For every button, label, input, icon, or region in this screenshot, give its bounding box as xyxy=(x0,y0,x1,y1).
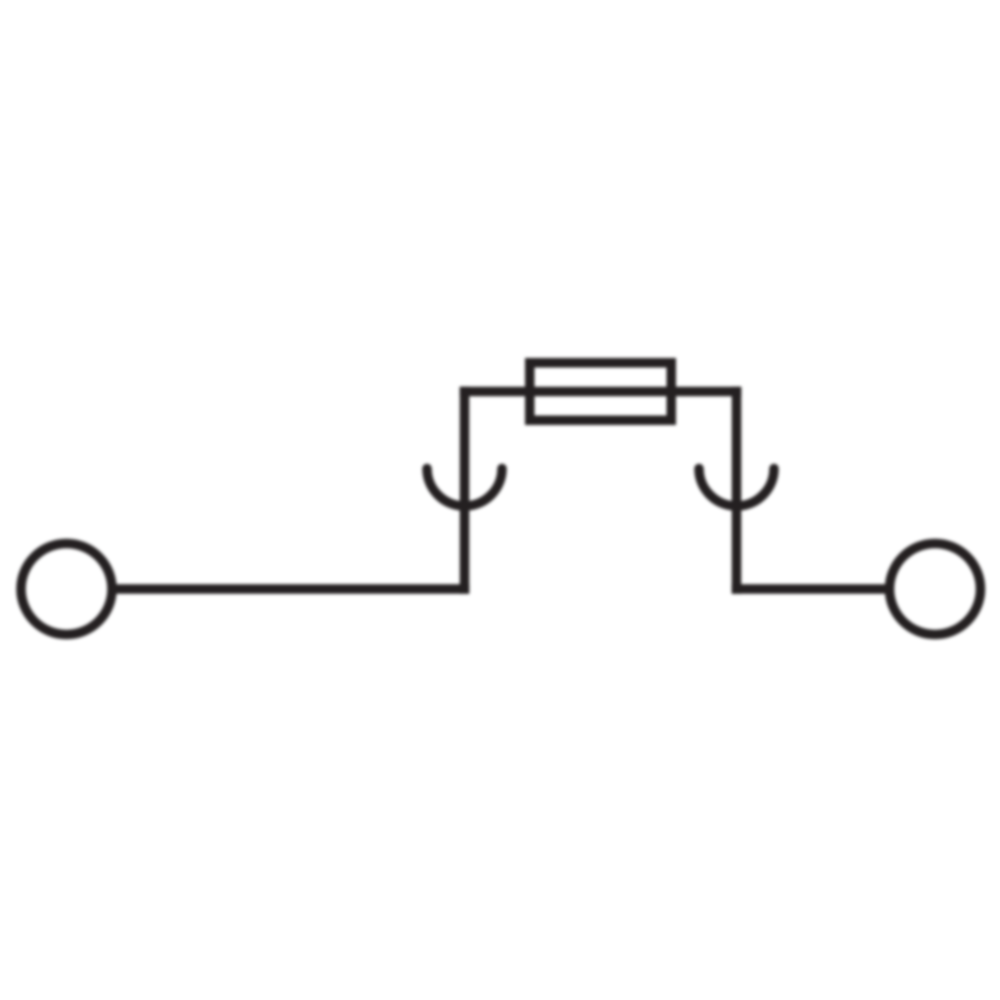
wire: top horizontal through fuse xyxy=(460,387,742,397)
terminal circle left xyxy=(21,544,112,635)
wire: bottom-right horizontal to right terminal xyxy=(732,584,886,594)
fuse body F1 (rectangle) xyxy=(530,363,672,421)
disconnect contact hook left xyxy=(427,469,502,507)
wire: bottom-left horizontal from left terminal xyxy=(112,584,469,594)
wire: left vertical riser xyxy=(460,387,470,594)
disconnect contact hook right xyxy=(699,469,774,507)
wire: right vertical riser xyxy=(732,387,742,594)
terminal circle right xyxy=(890,544,981,635)
